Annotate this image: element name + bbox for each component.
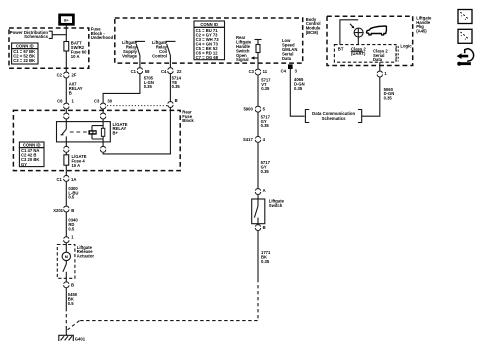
svg-text:Schematics: Schematics xyxy=(322,116,346,121)
body control module BCM (dashed box) xyxy=(115,18,303,63)
wire 1771 BK 0.35 xyxy=(258,231,271,279)
dashed ground wire (actuator) xyxy=(65,308,67,328)
relay suppression resistor (black) xyxy=(88,130,96,135)
connector pin 1 (actuator) xyxy=(64,237,69,243)
relay terminal 85 lead (bottom right) xyxy=(102,142,104,146)
connector C2 pin 2F xyxy=(64,72,69,78)
relay switch contacts xyxy=(61,122,67,142)
ground lead xyxy=(65,327,67,336)
wire 0340 RD 0.5 xyxy=(66,212,78,236)
connector pin B (actuator) xyxy=(64,282,69,288)
handle logic box (inner dashed) xyxy=(334,45,396,63)
svg-text:Logic: Logic xyxy=(400,43,412,48)
svg-text:G401: G401 xyxy=(75,337,86,342)
connector C3 pin 11 (BCM) xyxy=(255,69,260,75)
BCM C4 output lead xyxy=(169,63,171,67)
wire relay 87 to fuse 4 xyxy=(65,153,67,155)
liftgate handle assembly (dashed box) xyxy=(327,16,413,65)
pin labels C3 / 30 xyxy=(94,98,113,103)
svg-text:0.35: 0.35 xyxy=(384,96,393,101)
svg-text:C3 = 22 BK: C3 = 22 BK xyxy=(13,58,35,63)
svg-text:0.35: 0.35 xyxy=(144,84,153,89)
svg-text:Switch: Switch xyxy=(269,203,283,208)
inline connector 5900 pin 5 xyxy=(255,106,260,112)
svg-text:B: B xyxy=(263,225,266,230)
svg-text:Data: Data xyxy=(282,56,292,61)
ground G401 xyxy=(59,335,86,341)
svg-text:(A45): (A45) xyxy=(416,29,427,34)
svg-text:30: 30 xyxy=(107,98,112,103)
svg-text:0.35: 0.35 xyxy=(261,259,270,264)
BCM input label: rear liftgate handle switch open signal xyxy=(236,35,252,62)
svg-text:Schematics: Schematics xyxy=(24,34,48,39)
wire 0450 BK 0.5 xyxy=(66,288,77,308)
connector C4 pin 22 (BCM) xyxy=(168,68,173,74)
pin labels 5900 / 5 xyxy=(243,106,265,111)
rear box label xyxy=(182,109,194,123)
BCM input resistor and signal arrow xyxy=(251,40,262,64)
svg-text:0.35: 0.35 xyxy=(172,84,181,89)
svg-text:(BCM): (BCM) xyxy=(306,30,319,35)
CONN ID table (fuse block) xyxy=(12,43,38,64)
relay label xyxy=(113,122,128,136)
svg-text:A: A xyxy=(263,188,266,193)
wire label 5714 YE 0.35 xyxy=(172,75,182,89)
svg-text:S417: S417 xyxy=(243,137,253,142)
connector pin A (liftgate switch) xyxy=(255,189,260,195)
svg-text:X201: X201 xyxy=(53,208,63,213)
connector B (rear box) xyxy=(168,102,173,108)
GMLAN node (black square) xyxy=(288,64,293,69)
pin label B xyxy=(175,98,178,103)
wire into liftgate handle box xyxy=(379,62,381,70)
connector C6 pin 1 xyxy=(64,103,69,109)
pin labels C3 / 11 xyxy=(249,69,268,74)
inline connector S417 pin 4 xyxy=(255,137,260,143)
wire coil to connector B xyxy=(103,108,170,154)
svg-text:0.5: 0.5 xyxy=(68,227,74,232)
connector pin 1 (liftgate handle) xyxy=(377,71,382,77)
pin labels C6 / 1 xyxy=(57,98,74,103)
svg-text:Control: Control xyxy=(152,53,167,58)
BCM label xyxy=(306,17,321,35)
BCM driver: liftgate relay supply voltage xyxy=(122,40,145,63)
wire BCM C1-58 to connector C3-30 xyxy=(103,74,140,103)
wire 5717 VT 0.35 xyxy=(258,75,271,106)
battery B+ feed xyxy=(60,15,74,24)
wire battery to fuse block xyxy=(65,25,67,42)
fuse block label xyxy=(91,26,114,40)
svg-text:(UART): (UART) xyxy=(351,51,366,56)
fuse block underhood (dashed box) xyxy=(9,28,89,68)
connector C1 pin 58 (BCM) xyxy=(137,68,142,74)
pin labels C2 / 2F xyxy=(57,73,77,78)
relay terminal 86 (top right) xyxy=(100,113,105,119)
wire into rear box (right pin) xyxy=(102,109,104,112)
connector C1 pin 1A xyxy=(64,176,69,182)
wire to relay box xyxy=(65,119,67,121)
relay terminal 87 lead (bottom left) xyxy=(65,142,67,146)
pin labels S417 / 4 xyxy=(243,137,266,142)
CONN ID table (rear box) xyxy=(19,142,44,167)
actuator pin B lead xyxy=(65,278,67,281)
pin label B xyxy=(71,282,74,287)
rear fuse block (dashed box) xyxy=(13,110,180,170)
relay terminal 85 (bottom right) xyxy=(100,146,105,152)
BCM GMLAN label xyxy=(282,38,297,61)
actuator motor M xyxy=(62,243,70,261)
pin label A xyxy=(263,188,266,193)
fuse 4 L/GATE 10A xyxy=(64,154,87,168)
wire label 5705 L-GN 0.35 xyxy=(144,75,154,89)
svg-text:0.35: 0.35 xyxy=(261,169,270,174)
liftgate switch pin B lead xyxy=(257,223,259,226)
wire 5717 GY 0.35 (upper) xyxy=(258,113,271,137)
relay coil parallel branch xyxy=(92,126,103,139)
svg-text:B: B xyxy=(71,282,74,287)
liftgate relay K1 (box) xyxy=(57,122,111,142)
svg-text:C3: C3 xyxy=(94,98,100,103)
svg-text:Voltage: Voltage xyxy=(122,53,137,58)
svg-text:CONN ID: CONN ID xyxy=(23,142,41,147)
svg-text:CONN ID: CONN ID xyxy=(16,43,34,48)
svg-text:0.35: 0.35 xyxy=(261,123,270,128)
connector pin B (liftgate switch) xyxy=(255,225,260,231)
svg-text:CONN ID: CONN ID xyxy=(200,22,218,27)
BCM driver: liftgate relay coil control xyxy=(152,40,176,63)
pin labels C4 / 22 xyxy=(161,69,182,74)
power distribution schematics reference xyxy=(10,30,67,39)
pin label 1 xyxy=(384,71,387,76)
relay coil xyxy=(101,122,104,142)
svg-text:M: M xyxy=(65,255,68,259)
BCM CONN ID table xyxy=(194,21,225,60)
wire BCM C3-11 lead xyxy=(257,63,259,69)
svg-text:B: B xyxy=(71,208,74,213)
relay mechanical link (dashed) xyxy=(70,131,88,133)
svg-text:C7 = OG 68: C7 = OG 68 xyxy=(196,55,219,60)
svg-text:5900: 5900 xyxy=(243,106,253,111)
svg-text:1A: 1A xyxy=(71,177,76,182)
liftgate switch label xyxy=(269,198,285,207)
svg-text:0.35: 0.35 xyxy=(294,86,303,91)
svg-text:C2: C2 xyxy=(57,73,63,78)
fuse BATT SW/R2 60 10A xyxy=(64,41,87,59)
nav arrows icon xyxy=(457,49,474,66)
vehicle liftgate icon xyxy=(367,26,387,35)
wire 5717 GY 0.35 (lower) xyxy=(258,143,271,189)
svg-text:B: B xyxy=(175,98,178,103)
actuator switch xyxy=(63,261,66,279)
svg-text:B+: B+ xyxy=(64,18,68,22)
pin labels C1 / 58 xyxy=(131,69,150,74)
wire into rear box (left pin) xyxy=(65,109,67,112)
wire 4065 D-GN to data comm xyxy=(290,69,304,116)
dashed ground wire from liftgate switch xyxy=(80,279,259,321)
svg-text:C1: C1 xyxy=(56,177,62,182)
svg-text:22: 22 xyxy=(177,69,182,74)
svg-text:10 A: 10 A xyxy=(71,54,80,59)
wire fuse to connector C2 xyxy=(65,51,67,72)
pin label 1 xyxy=(71,234,74,239)
liftgate release actuator (dashed box) xyxy=(57,245,75,279)
dashed ground diagonal xyxy=(68,321,80,330)
svg-text:C1: C1 xyxy=(131,69,137,74)
svg-text:C3: C3 xyxy=(249,69,255,74)
liftgate switch xyxy=(252,195,265,224)
svg-text:0.35: 0.35 xyxy=(261,86,270,91)
svg-text:Block: Block xyxy=(182,118,194,123)
svg-text:C6: C6 xyxy=(57,98,63,103)
relay terminal 87 (bottom left) xyxy=(64,146,69,152)
logic section divider xyxy=(396,43,412,61)
data communication schematics reference xyxy=(305,110,361,123)
actuator label xyxy=(77,245,95,259)
wire fuse 4 to connector C1 xyxy=(65,165,67,175)
svg-text:BT: BT xyxy=(338,47,344,52)
pin labels C4 / 3 xyxy=(281,69,298,74)
svg-text:58: 58 xyxy=(145,69,150,74)
handle switch wiring xyxy=(340,20,358,45)
svg-text:B: B xyxy=(69,90,72,95)
svg-text:Data: Data xyxy=(373,57,383,62)
wire data comm to liftgate handle xyxy=(362,77,380,116)
svg-text:Signal: Signal xyxy=(236,57,249,62)
svg-text:C4: C4 xyxy=(281,69,287,74)
handle switch actuation arrow xyxy=(350,24,354,29)
wire A07 RELAY B xyxy=(66,78,83,102)
svg-text:Actuator: Actuator xyxy=(77,254,95,259)
pin labels X201 / B xyxy=(53,208,74,213)
svg-text:0.5: 0.5 xyxy=(68,301,74,306)
pin labels C1 / 1A xyxy=(56,177,76,182)
connector X201 pin B xyxy=(64,206,69,212)
svg-text:0.5: 0.5 xyxy=(68,195,74,200)
svg-text:Underhood: Underhood xyxy=(91,35,114,40)
nav icon square 1 xyxy=(458,10,472,24)
svg-text:11: 11 xyxy=(263,69,268,74)
nav icon square 2 xyxy=(458,29,472,43)
dotted connector tie line C3-B xyxy=(107,105,167,107)
connector C3 pin 30 xyxy=(100,103,105,109)
svg-text:2F: 2F xyxy=(72,73,77,78)
wire to relay coil xyxy=(102,119,104,121)
svg-text:10 A: 10 A xyxy=(72,163,81,168)
wire label 5060 D-GN 0.35 xyxy=(384,87,395,101)
pin label B xyxy=(263,225,266,230)
svg-text:C4: C4 xyxy=(161,69,167,74)
wire 0300 L-BU 0.5 xyxy=(66,182,78,206)
wire connector B up to BCM C4 xyxy=(169,74,171,101)
BCM C1 output lead xyxy=(139,63,141,67)
handle box label xyxy=(416,15,432,33)
svg-text:GY: GY xyxy=(21,162,27,167)
handle switch contact (circle) xyxy=(354,28,363,37)
svg-text:B+: B+ xyxy=(113,131,119,136)
relay terminal 30 (top left) xyxy=(64,113,69,119)
